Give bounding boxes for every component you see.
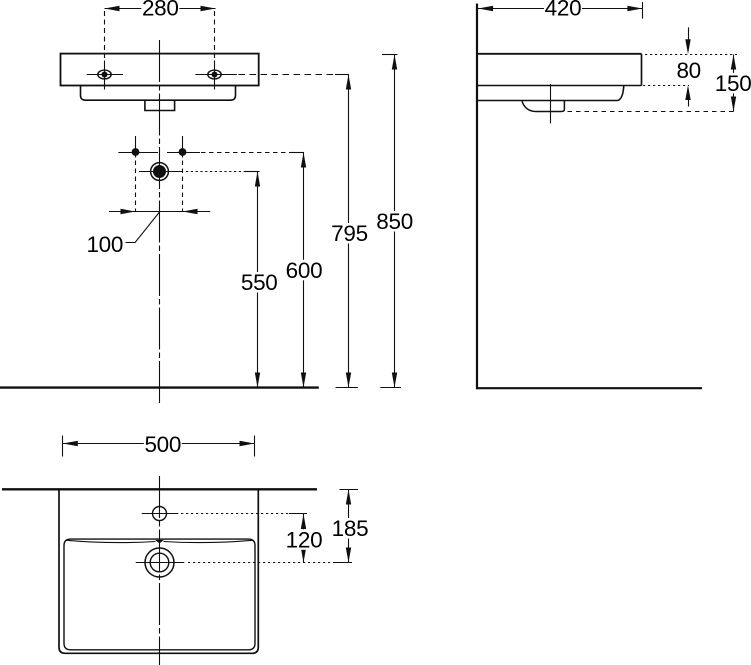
svg-text:600: 600	[286, 258, 323, 283]
svg-text:100: 100	[86, 232, 123, 257]
svg-text:420: 420	[545, 0, 582, 20]
svg-text:185: 185	[332, 516, 369, 541]
svg-text:500: 500	[144, 432, 181, 457]
svg-text:120: 120	[286, 527, 323, 552]
svg-text:850: 850	[376, 209, 413, 234]
svg-text:80: 80	[676, 58, 700, 83]
svg-text:795: 795	[331, 221, 368, 246]
svg-text:550: 550	[241, 270, 278, 295]
svg-text:150: 150	[715, 71, 751, 96]
svg-text:280: 280	[142, 0, 179, 20]
